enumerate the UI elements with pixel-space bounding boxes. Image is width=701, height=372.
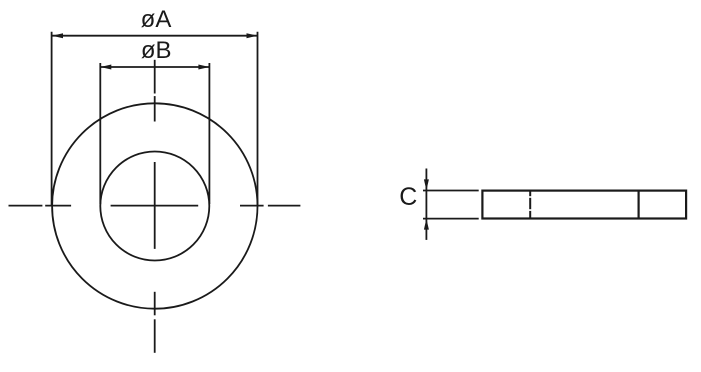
svg-text:øB: øB xyxy=(141,37,172,64)
svg-text:C: C xyxy=(399,183,417,211)
svg-text:øA: øA xyxy=(141,6,172,33)
